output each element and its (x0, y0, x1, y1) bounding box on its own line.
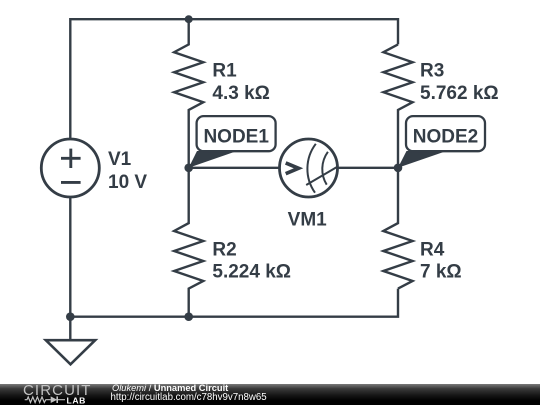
footer credit text (112, 384, 228, 394)
wire: VM1 right lead (338, 167, 399, 169)
node B: NODE2 junction dot (394, 164, 403, 173)
svg-text:LAB: LAB (67, 395, 86, 405)
wire: ground lead (69, 317, 71, 341)
svg-text:V1: V1 (108, 149, 132, 170)
resistor R4 (383, 168, 412, 289)
node A: NODE1 junction dot (184, 164, 193, 173)
svg-text:5.224 kΩ: 5.224 kΩ (212, 262, 291, 283)
svg-text:10 V: 10 V (108, 172, 147, 193)
label V1 value (108, 61, 499, 283)
resistor R3 (383, 44, 412, 167)
svg-text:R2: R2 (212, 239, 236, 260)
wire: bottom rail + R4 bottom lead (70, 289, 398, 317)
footer bar (0, 384, 540, 405)
CircuitLab logo schematic squiggle + LAB (22, 393, 102, 405)
svg-text:NODE1: NODE1 (203, 127, 269, 148)
CircuitLab logo wordmark (23, 383, 92, 398)
ground (46, 340, 95, 364)
junction dot bottom left (66, 312, 75, 321)
svg-text:R4: R4 (420, 239, 445, 260)
wire: V1 bottom lead (69, 197, 71, 317)
node junction dot top (185, 15, 193, 23)
resistor R2 (174, 168, 203, 317)
svg-text:5.762 kΩ: 5.762 kΩ (420, 83, 499, 104)
wire: left rail + top rail + R3 top lead (70, 19, 398, 139)
voltage source V1 (41, 139, 99, 197)
svg-text:R1: R1 (212, 61, 237, 82)
svg-text:7 kΩ: 7 kΩ (420, 262, 462, 283)
svg-text:R3: R3 (420, 61, 444, 82)
node NODE1 flag (189, 116, 276, 168)
wire: VM1 left lead (189, 167, 280, 169)
svg-text:NODE2: NODE2 (413, 127, 478, 148)
svg-text:4.3 kΩ: 4.3 kΩ (212, 83, 270, 104)
voltmeter VM1 (280, 139, 338, 197)
resistor R1 (174, 19, 203, 168)
node NODE2 flag (398, 116, 485, 168)
svg-text:VM1: VM1 (288, 209, 328, 230)
junction dot bottom center (184, 312, 193, 321)
